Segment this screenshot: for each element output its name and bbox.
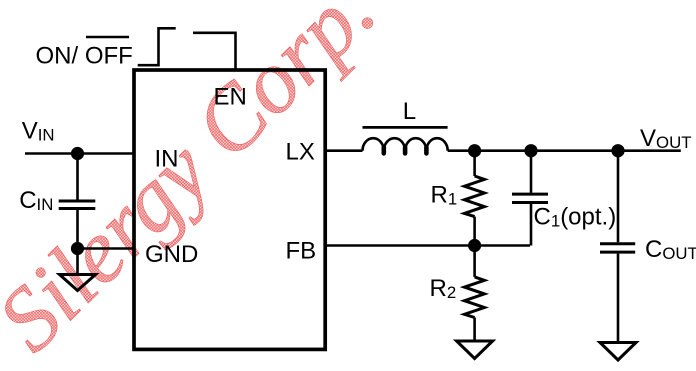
- ground symbol at R2: [457, 341, 493, 359]
- wire GND node to GND pin: [78, 247, 135, 250]
- wire C1 bottom: [530, 204, 533, 246]
- wire EN to pin: [193, 33, 236, 70]
- inductor L bar: [363, 126, 448, 129]
- node FB junction: [468, 239, 481, 252]
- wire ON/OFF step waveform: [138, 28, 176, 65]
- overline over OFF: [86, 36, 129, 39]
- IC U1 regulator box: [134, 70, 325, 349]
- node COUT junction: [611, 144, 624, 157]
- svg-text:C1(opt.): C1(opt.): [534, 204, 617, 231]
- svg-text:LX: LX: [286, 139, 315, 166]
- wire FB pin to C1: [325, 244, 530, 247]
- ground symbol at COUT: [600, 343, 636, 361]
- svg-text:GND: GND: [145, 241, 198, 268]
- wire COUT to ground: [617, 254, 620, 343]
- svg-text:L: L: [403, 98, 416, 125]
- capacitor CIN: [59, 200, 96, 203]
- inductor L coils: [363, 138, 448, 151]
- resistor R1: [464, 176, 484, 217]
- node VIN junction: [71, 147, 84, 160]
- ground symbol at CIN: [60, 275, 96, 291]
- capacitor C1: [512, 193, 548, 196]
- wire LX to inductor: [325, 149, 363, 152]
- watermark Silergy Corp.: [0, 0, 394, 370]
- wire FB node to R2: [473, 246, 476, 277]
- svg-text:FB: FB: [286, 238, 317, 265]
- svg-text:EN: EN: [214, 84, 247, 111]
- wire R2 to ground: [473, 318, 476, 342]
- wire VIN junction to CIN: [76, 154, 79, 200]
- svg-text:ON/ OFF: ON/ OFF: [36, 43, 133, 70]
- wire COUT top: [617, 151, 620, 243]
- wire inductor to VOUT: [448, 149, 681, 152]
- resistor R2: [464, 277, 484, 318]
- node GND junction: [71, 242, 84, 255]
- capacitor COUT: [600, 242, 635, 245]
- wire GND node down: [76, 249, 79, 275]
- svg-text:IN: IN: [155, 146, 179, 173]
- node C1 junction: [524, 144, 537, 157]
- wire CIN to GND node: [76, 210, 79, 249]
- wire VIN to IN: [25, 152, 134, 155]
- wire R1 to FB node: [473, 217, 476, 246]
- wire to R1: [473, 151, 476, 176]
- wire C1 top: [530, 151, 533, 193]
- node LX-R1 junction: [468, 144, 481, 157]
